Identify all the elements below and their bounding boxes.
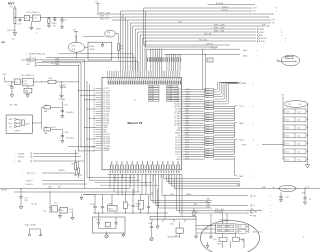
bottom rail 2: [14, 191, 140, 192]
sheet number: [167, 236, 304, 239]
svg-text:P1.1/T2X: P1.1/T2X: [103, 90, 111, 92]
wire to right: [159, 174, 212, 208]
svg-text:P1.0/T2: P1.0/T2: [103, 88, 109, 90]
U1 left pin labels: [103, 88, 111, 152]
svg-text:VxxB: VxxB: [8, 123, 12, 125]
bus stub wires: [202, 49, 206, 92]
svg-text:45: 45: [93, 143, 95, 145]
U1 top pin stubs: [108, 71, 180, 78]
svg-text:(C5aC7B5): (C5aC7B5): [66, 112, 74, 114]
svg-text:TVS: TVS: [10, 7, 13, 9]
net label RXD1: [100, 12, 110, 14]
oscillator X2: [276, 55, 300, 66]
svg-text:MLB: MLB: [302, 193, 305, 195]
svg-text:B-7L/BDB: B-7L/BDB: [216, 3, 223, 5]
svg-text:C7L.4B: C7L.4B: [149, 98, 153, 100]
off-page labels (top right): [253, 7, 286, 43]
svg-text:P3.0/RXD: P3.0/RXD: [103, 106, 111, 108]
svg-text:TY1: TY1: [272, 20, 275, 22]
svg-text:C7L8: C7L8: [286, 151, 290, 153]
wire: [196, 232, 216, 234]
ground: [29, 21, 40, 34]
svg-text:P1.3/CX0: P1.3/CX0: [103, 95, 110, 97]
wire: [22, 58, 37, 61]
wire staircase: [164, 174, 241, 188]
svg-text:1: 1: [27, 54, 28, 56]
wire: [179, 174, 253, 214]
svg-text:C.1UF: C.1UF: [8, 85, 12, 87]
resistor R5: [193, 208, 199, 216]
inductor L2: [42, 104, 63, 113]
svg-text:C7L.4B: C7L.4B: [149, 91, 153, 93]
wire: [112, 19, 128, 21]
svg-text:35: 35: [93, 120, 95, 122]
U1 right pin labels: [174, 88, 182, 161]
inductor L3: [44, 126, 62, 135]
capacitor C8: [61, 136, 74, 143]
lower boxes: [217, 233, 239, 245]
svg-text:P4.0/CS0: P4.0/CS0: [103, 134, 110, 136]
U1 right pin wires: [185, 90, 205, 160]
svg-text:P1.2/ECI: P1.2/ECI: [103, 93, 110, 95]
off-page label: [59, 99, 66, 101]
net labels above IC pins: [147, 57, 182, 62]
wire to right: [153, 174, 211, 203]
wire to right: [156, 174, 248, 205]
U1 right pin stubs: [182, 90, 185, 160]
capacitor C2: [60, 17, 67, 29]
battery connector J2: [6, 115, 32, 133]
off-page MAL-5: [239, 82, 253, 85]
svg-text:1 XL: 1 XL: [107, 35, 110, 37]
svg-text:Condensator: Condensator: [220, 218, 230, 221]
svg-text:C7L6 / PGBF CO: C7L6 / PGBF CO: [27, 12, 41, 14]
varistor RV1: [14, 6, 16, 33]
svg-text:C/7L8: C/7L8: [218, 230, 222, 232]
svg-text:B7x: B7x: [61, 210, 64, 212]
svg-text:C-7L: C-7L: [208, 60, 211, 62]
svg-text:C7L8: C7L8: [288, 104, 292, 106]
svg-text:P5.4/D4: P5.4/D4: [175, 147, 181, 149]
U1 left pin stubs: [96, 88, 103, 150]
svg-text:P3.4/T0: P3.4/T0: [103, 116, 109, 118]
transistor Q1: [43, 192, 58, 213]
svg-text:LDP7 3B: LDP7 3B: [206, 44, 212, 46]
wires to U1 left pins: [78, 90, 95, 151]
sub box: [24, 86, 32, 98]
capacitor C16: [279, 192, 288, 202]
svg-text:C5: C5: [134, 100, 136, 102]
svg-text:C7L.4B: C7L.4B: [149, 95, 153, 97]
svg-text:C7L8: C7L8: [286, 159, 290, 161]
svg-text:S/CM6: S/CM6: [90, 46, 95, 48]
svg-text:C7 MHz: C7 MHz: [96, 219, 101, 221]
svg-text:44: 44: [93, 141, 95, 143]
svg-text:GMB: GMB: [276, 60, 279, 62]
capacitor C13: [147, 195, 150, 213]
svg-text:C7L.4B4: C7L.4B4: [167, 91, 172, 93]
off-page Tx6B: [25, 180, 85, 182]
microcontroller U1 body: [102, 77, 182, 170]
connector J1 label: [281, 95, 284, 97]
svg-text:33: 33: [93, 116, 95, 118]
svg-text:B4: B4: [139, 203, 141, 205]
module label: [220, 218, 230, 221]
regulator U2 label: [27, 12, 41, 14]
U1 top pin numbers: [108, 78, 182, 80]
relay K1: [279, 185, 297, 191]
wire RXD1: [98, 13, 123, 15]
svg-text:C5x/1UF: C5x/1UF: [90, 204, 96, 206]
inner label boxes: [218, 225, 234, 232]
svg-text:C7L4: C7L4: [205, 120, 209, 122]
svg-text:C7L.4B: C7L.4B: [149, 88, 153, 90]
svg-text:B-L4: B-L4: [239, 231, 242, 233]
svg-text:B-L6: B-L6: [298, 143, 301, 145]
wire: [5, 77, 15, 82]
svg-text:P3.1/TXD: P3.1/TXD: [103, 109, 111, 111]
svg-text:CXL/ YPB: CXL/ YPB: [7, 30, 15, 32]
svg-text:GMCB: GMCB: [90, 49, 95, 51]
svg-text:C7L8: C7L8: [286, 143, 290, 145]
jumper: [28, 229, 41, 236]
svg-text:L7L5: L7L5: [24, 81, 28, 83]
svg-text:B7L: B7L: [27, 58, 30, 60]
wire: [181, 174, 183, 216]
wire: [40, 16, 125, 19]
wire: [282, 97, 284, 101]
svg-text:B5L: B5L: [27, 64, 30, 66]
svg-text:25: 25: [93, 97, 95, 99]
svg-text:(C-Lx-x: (C-Lx-x: [305, 187, 310, 189]
component box: [108, 195, 118, 212]
svg-text:C7L8: C7L8: [286, 111, 290, 113]
svg-text:P1.5/CX2: P1.5/CX2: [103, 100, 110, 102]
svg-text:P4.1/CS1: P4.1/CS1: [103, 136, 110, 138]
svg-text:4: 4: [253, 176, 254, 178]
svg-text:L7x: L7x: [128, 204, 131, 206]
svg-text:VB: VB: [9, 126, 11, 128]
net label boxes (right): [205, 88, 214, 158]
svg-text:GL / CPL: GL / CPL: [31, 204, 38, 206]
bottom rail 3: [83, 194, 150, 196]
label B7A4: [241, 230, 257, 241]
component box: [174, 222, 183, 238]
svg-text:PGM1: PGM1: [259, 32, 264, 34]
svg-text:(C-WBB): (C-WBB): [59, 99, 66, 101]
bottom rail 1: [0, 187, 130, 189]
svg-text:P4.3/CS3: P4.3/CS3: [103, 141, 110, 143]
svg-text:C7PL: C7PL: [178, 22, 182, 24]
capacitor C6: [59, 82, 66, 98]
ground: [71, 213, 74, 220]
svg-text:B-L4: B-L4: [298, 127, 301, 129]
svg-text:C7L4: C7L4: [205, 132, 209, 134]
off-page LXD2: [27, 56, 136, 71]
svg-text:RLKG: RLKG: [52, 23, 57, 25]
svg-text:(B-, LPLB): (B-, LPLB): [51, 63, 59, 65]
svg-text:C7L4: C7L4: [205, 96, 209, 98]
oscillator circle: [105, 30, 116, 37]
U1 center label: [128, 100, 143, 125]
svg-text:TY4: TY4: [272, 23, 275, 25]
svg-text:C7L8: C7L8: [286, 135, 290, 137]
resistor R1: [47, 17, 50, 28]
wire: [14, 17, 24, 18]
off-page C7: [251, 204, 272, 207]
wire: [177, 174, 262, 211]
off-page DL2: [27, 60, 139, 71]
svg-text:MxxB: MxxB: [26, 123, 30, 125]
earth ground: [150, 237, 153, 240]
svg-text:P4.2/CS2: P4.2/CS2: [103, 139, 110, 141]
bus bracket MIC-E: [213, 139, 253, 154]
resistor R4: [59, 161, 80, 178]
wire: [33, 80, 48, 83]
svg-text:(C7x 7a: (C7x 7a: [258, 232, 263, 234]
svg-text:LPB: LPB: [1, 42, 6, 44]
svg-text:B-L7: B-L7: [298, 151, 301, 153]
svg-text:L7L5: L7L5: [33, 18, 37, 20]
strip stubs: [152, 219, 196, 233]
svg-text:C7L8: C7L8: [286, 119, 290, 121]
svg-text:C7: C7: [253, 205, 255, 207]
svg-text:P5.2/D2: P5.2/D2: [175, 142, 181, 144]
svg-text:CXL: CXL: [12, 39, 15, 41]
resistor R3: [71, 150, 83, 176]
svg-text:C7B: C7B: [281, 95, 284, 97]
capacitor C17: [302, 188, 312, 204]
net label LPLB: [2, 74, 7, 76]
wire: [152, 189, 165, 220]
svg-text:C7L.4B4: C7L.4B4: [167, 88, 172, 90]
net label GL/CPL: [31, 204, 38, 206]
svg-text:42: 42: [93, 136, 95, 138]
svg-text:C7L.4B4: C7L.4B4: [167, 93, 172, 95]
bottom bus wire: [108, 173, 183, 175]
resistor R2: [118, 44, 124, 61]
off-page MCLPB2: [15, 155, 82, 158]
svg-text:LMB4: LMB4: [266, 26, 270, 28]
svg-text:VSS: VSS: [103, 129, 106, 131]
module wires: [211, 211, 244, 248]
svg-text:C1 UF: C1 UF: [17, 23, 22, 25]
svg-text:1 Tx6B / 2x: 1 Tx6B / 2x: [25, 180, 33, 182]
svg-text:MGB1: MGB1: [36, 28, 41, 30]
svg-text:M-L702: M-L702: [222, 10, 228, 12]
svg-text:TxL4 / .2: TxL4 / .2: [30, 173, 36, 175]
off-page Tx6B2: [25, 184, 87, 186]
U1 right wire labels: [185, 88, 190, 161]
svg-text:C7L.4B4: C7L.4B4: [167, 86, 172, 88]
off-page label: [51, 63, 59, 65]
off-page MCLPB: [15, 152, 79, 155]
U1 bottom pin numbers: [110, 171, 181, 173]
svg-text:P5.0/D0: P5.0/D0: [175, 137, 181, 139]
U1 top pin labels: [108, 81, 181, 85]
svg-text:C7L4: C7L4: [205, 156, 209, 158]
svg-text:4: 4: [253, 106, 254, 108]
net label B7L: [27, 58, 85, 61]
bus bracket MAL2: [213, 122, 253, 138]
svg-text:P1.4/CX1: P1.4/CX1: [103, 97, 110, 99]
svg-text:C7L: C7L: [286, 57, 289, 59]
svg-text:P4.5/CS5: P4.5/CS5: [103, 146, 110, 148]
bus bracket PG1 1: [213, 105, 253, 120]
svg-text:40: 40: [93, 132, 95, 134]
svg-text:B-L1: B-L1: [299, 104, 302, 106]
svg-text:32: 32: [93, 113, 95, 115]
bus bracket low: [213, 157, 253, 178]
svg-text:MB4: MB4: [25, 91, 28, 93]
svg-text:B-L4: B-L4: [239, 226, 242, 228]
wire: [32, 107, 41, 129]
svg-text:M-LK04: M-LK04: [222, 7, 228, 9]
svg-text:#A23456789 : B: #A23456789 : B: [167, 236, 181, 239]
svg-text:MIC-E: MIC-E: [240, 140, 245, 142]
svg-text:C7Y4: C7Y4: [253, 8, 257, 10]
svg-text:P5.7/D7: P5.7/D7: [175, 154, 181, 156]
wire: [62, 101, 68, 116]
wire: [83, 34, 119, 44]
svg-text:DL2: DL2: [32, 61, 35, 63]
buzzer module outline: [201, 221, 260, 252]
capacitor C15: [209, 215, 216, 241]
ground (input): [12, 33, 17, 41]
ground: [156, 213, 159, 229]
net label box: [207, 58, 213, 62]
svg-text:GxxB: GxxB: [48, 187, 52, 189]
svg-text:P1.7/CX4: P1.7/CX4: [103, 104, 110, 106]
net label B7L2: [27, 61, 81, 64]
svg-text:P4.4/CS4: P4.4/CS4: [103, 143, 110, 145]
capacitor C9: [19, 189, 27, 210]
svg-text:OMNI2: OMNI2: [259, 29, 264, 31]
svg-text:TxBL5 - W BKx: TxBL5 - W BKx: [25, 225, 37, 227]
wire: [240, 186, 320, 189]
earth ground: [105, 232, 108, 239]
svg-text:28: 28: [93, 104, 95, 106]
net label MAL5: [243, 49, 258, 52]
component box: [57, 207, 67, 213]
svg-text:39: 39: [93, 129, 95, 131]
svg-text:P5.1/D1: P5.1/D1: [175, 140, 181, 142]
capacitor C10: [90, 204, 97, 214]
svg-text:29: 29: [93, 106, 95, 108]
svg-text:P3.6/WR: P3.6/WR: [103, 120, 110, 122]
off-page MB4: [250, 215, 271, 217]
svg-text:MIC-E: MIC-E: [242, 144, 247, 146]
svg-text:4: 4: [253, 140, 254, 142]
svg-text:B2L / YPB: B2L / YPB: [10, 105, 19, 107]
label C7x: [258, 232, 263, 234]
U1 bottom pin wires: [115, 174, 169, 185]
wire: [83, 195, 95, 207]
svg-text:B-L8: B-L8: [298, 159, 301, 161]
svg-text:C7L.4B: C7L.4B: [149, 100, 153, 102]
ground: [122, 233, 125, 237]
capacitor C14: [148, 222, 153, 237]
net label MCL: [100, 19, 109, 21]
wire: [68, 146, 96, 148]
svg-text:P3.2/IN0: P3.2/IN0: [103, 111, 109, 113]
svg-text:CPL: CPL: [253, 11, 256, 13]
off-page CTA4: [251, 210, 272, 213]
svg-text:47: 47: [93, 148, 95, 150]
svg-text:MCLPB4: MCLPB4: [18, 157, 24, 159]
svg-text:B-L5: B-L5: [298, 135, 301, 137]
svg-text:41: 41: [93, 134, 95, 136]
svg-text:C7L.4B: C7L.4B: [149, 86, 153, 88]
U1 left pin numbers: [93, 88, 95, 152]
module U3: [76, 42, 112, 60]
svg-text:23: 23: [93, 93, 95, 95]
net label MAL5b: [243, 55, 258, 58]
net label ATGB: [100, 15, 109, 18]
svg-text:4: 4: [303, 237, 304, 239]
svg-text:1 Tx6B / 2x: 1 Tx6B / 2x: [25, 184, 33, 186]
svg-text:MCL: MCL: [253, 196, 256, 198]
labels: [69, 208, 74, 214]
U1 internal register labels: [149, 85, 179, 102]
svg-text:C7L8: C7L8: [286, 127, 290, 129]
svg-text:-BL: -BL: [273, 187, 275, 189]
svg-text:T-a4: T-a4: [43, 211, 46, 213]
net label B7L3: [27, 64, 79, 67]
svg-text:31: 31: [93, 111, 95, 113]
svg-text:C7L.4B: C7L.4B: [149, 93, 153, 95]
svg-text:P3.3/IN1: P3.3/IN1: [103, 113, 109, 115]
wire: [95, 182, 152, 184]
svg-text:C/7L8: C/7L8: [218, 226, 222, 228]
component: [123, 192, 130, 213]
wire to right: [162, 174, 248, 196]
svg-text:P5.3/D3: P5.3/D3: [175, 144, 181, 146]
svg-text:37: 37: [93, 125, 95, 127]
svg-text:C-7F: C-7F: [24, 197, 27, 199]
connector J1: [283, 101, 310, 168]
svg-text:P5.6/D6: P5.6/D6: [175, 152, 181, 154]
svg-text:P5.5/D5: P5.5/D5: [175, 149, 181, 151]
svg-text:(LB-PK1): (LB-PK1): [59, 170, 66, 172]
svg-text:P3.5/T1: P3.5/T1: [103, 118, 109, 120]
mid wire labels (top): [144, 3, 255, 50]
svg-text:RST: RST: [178, 135, 181, 137]
ground: [194, 233, 197, 239]
svg-text:C7L.4B4: C7L.4B4: [167, 100, 172, 102]
svg-text:MCLPB4: MCLPB4: [18, 153, 24, 155]
capacitor C1: [7, 18, 22, 32]
component box: [138, 195, 143, 214]
svg-text:C-L2: C-L2: [63, 84, 66, 86]
wire: [62, 129, 68, 140]
svg-text:21: 21: [93, 88, 95, 90]
svg-text:Mascot V2: Mascot V2: [128, 121, 143, 125]
bus taps to IC top pins (2): [164, 54, 240, 71]
crystal circuit box: [93, 217, 126, 233]
svg-text:P1.6/CX3: P1.6/CX3: [103, 102, 110, 104]
module inner box: [216, 224, 236, 233]
wire: [93, 213, 168, 214]
bus wire: [144, 8, 230, 45]
svg-text:16LB: 16LB: [107, 32, 111, 34]
strip connector J3: [150, 217, 196, 220]
svg-text:27: 27: [93, 102, 95, 104]
net label MVT: [8, 2, 15, 9]
regulator U4 label: [21, 75, 36, 77]
svg-text:MBL: MBL: [18, 161, 21, 163]
inductor L1: [48, 77, 79, 83]
